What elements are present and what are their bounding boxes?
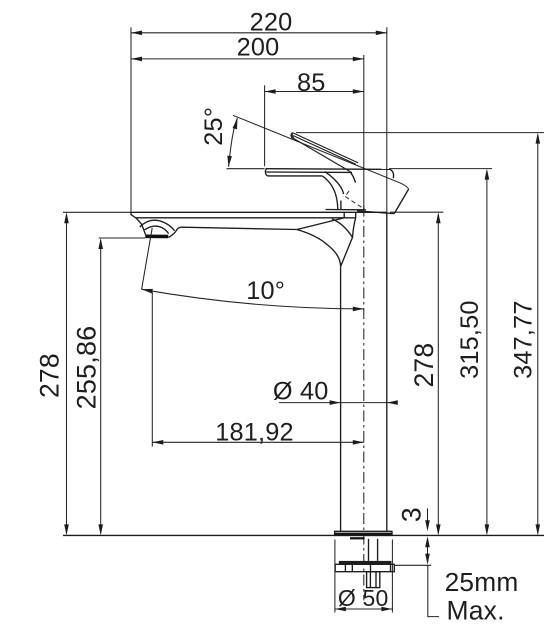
extension line, flange left edge down	[334, 540, 336, 613]
angle dimension 25deg	[200, 107, 265, 169]
cartridge step under deck	[344, 212, 356, 218]
dimension 181,92	[152, 419, 363, 447]
dimension 200	[131, 33, 364, 61]
extension line, closed lever top to right	[389, 168, 492, 170]
svg-text:25mm: 25mm	[445, 567, 519, 597]
lever handle raised 25deg	[291, 133, 358, 183]
deck top line	[131, 211, 387, 213]
dimension 315,50	[456, 169, 489, 536]
svg-text:3: 3	[397, 507, 427, 522]
dimension 278 left	[34, 212, 68, 535]
spout tip face	[131, 212, 142, 224]
svg-text:255,86: 255,86	[71, 326, 101, 410]
deck bottom line	[136, 217, 356, 219]
extension line, lever tip x	[264, 85, 266, 166]
svg-text:Max.: Max.	[446, 596, 504, 626]
lever 25deg construction line	[233, 115, 409, 189]
extension line, deck top to left	[63, 211, 131, 213]
extension line, clamp plate top to right	[395, 564, 431, 566]
svg-text:181,92: 181,92	[215, 419, 294, 447]
svg-text:200: 200	[237, 33, 280, 61]
dimension diameter 40	[273, 377, 398, 405]
extension line, aerator underside to left	[99, 237, 145, 239]
clamp plate	[335, 564, 394, 571]
svg-text:Ø 40: Ø 40	[273, 377, 329, 405]
dimension 25mm max	[425, 536, 518, 625]
dimension 3 flange height	[397, 507, 430, 531]
svg-text:25°: 25°	[200, 107, 228, 146]
threaded rod	[369, 539, 378, 561]
extension line, outlet center vertical	[151, 292, 153, 447]
base flange	[335, 531, 392, 535]
lever handle closed position	[265, 169, 393, 210]
svg-text:278: 278	[409, 343, 439, 388]
flange collar	[350, 537, 365, 539]
aerator housing	[140, 220, 182, 237]
dimension 220 top	[131, 9, 387, 37]
dimension diameter 50	[335, 585, 393, 611]
column centerline	[363, 206, 365, 601]
extension line, spout tip vertical	[130, 27, 132, 212]
mounting surface line	[63, 534, 544, 536]
angle dimension 10deg	[142, 228, 364, 311]
aerator outlet slot	[145, 235, 168, 239]
dimension 255,86	[71, 238, 103, 535]
column right edge	[386, 212, 388, 531]
svg-text:85: 85	[297, 69, 326, 97]
extension line, deck top to right	[390, 211, 443, 213]
extension line, column centerline top	[363, 55, 365, 211]
dimension 85	[265, 69, 364, 97]
extension line, raised lever tip to right	[296, 132, 544, 134]
dimension 278 right	[409, 212, 441, 535]
svg-text:Ø 50: Ø 50	[338, 585, 389, 611]
body blend silhouette	[297, 218, 356, 266]
svg-text:10°: 10°	[246, 277, 285, 305]
lever hub wedge	[357, 189, 409, 214]
spout underside line	[182, 227, 298, 229]
column left edge	[340, 266, 342, 531]
extension line, flange right edge down	[391, 540, 393, 613]
svg-text:278: 278	[34, 353, 64, 398]
dimension 347,77	[509, 133, 540, 536]
clamp washer upper	[339, 561, 392, 564]
svg-text:347,77: 347,77	[509, 300, 537, 379]
svg-text:315,50: 315,50	[456, 300, 484, 379]
fixing nut	[367, 572, 380, 588]
extension line, column right edge top	[386, 27, 388, 212]
lever hub hidden edges	[345, 191, 364, 209]
